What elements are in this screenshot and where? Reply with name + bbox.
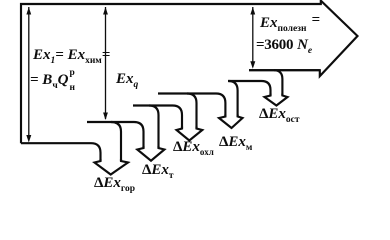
step line 2 (y=105.5) into pipe3 left wall <box>133 106 182 129</box>
hollow arrowhead pipe1 <box>95 159 129 175</box>
hollow arrowhead pipe3 <box>177 127 203 141</box>
label dEx_gor <box>94 175 135 192</box>
label dEx_ost <box>259 106 300 123</box>
label dEx_ohl <box>173 139 214 156</box>
step line 4 (y=81) into pipe5 left wall <box>228 81 271 96</box>
label Ex_q <box>116 71 138 88</box>
step line 3 (y=93.5) into pipe4 left wall <box>158 94 225 117</box>
pipe1 right wall branch <box>111 122 121 161</box>
label Ex_polezn = <box>260 15 320 32</box>
hollow arrowhead pipe2 <box>137 146 164 161</box>
pipe4 right wall branch <box>229 81 238 117</box>
main exergy band outline with big right arrow <box>21 1 358 144</box>
pipe5 right wall branch <box>274 70 282 95</box>
band bottom step S0 into pipe1 left wall <box>21 143 101 161</box>
pipe2 right wall branch <box>149 106 159 149</box>
step line 1 (y=122) into pipe2 left wall <box>87 122 144 148</box>
label = B Q <box>30 72 77 89</box>
final bottom line <box>249 69 320 71</box>
dimension arrow D1 (Ex1) <box>28 7 30 141</box>
hollow arrowhead pipe5 <box>265 94 288 106</box>
label Ex1 = Ex_him = <box>33 47 110 64</box>
pipe3 right wall branch <box>187 94 197 129</box>
dimension arrow D3 (Ex polezn) <box>252 7 254 67</box>
label dEx_t <box>142 162 174 179</box>
dimension arrow D2 (Exq) <box>105 7 107 119</box>
label =3600 Ne <box>256 37 312 54</box>
label dEx_m <box>219 134 252 151</box>
hollow arrowhead pipe4 <box>219 115 243 129</box>
